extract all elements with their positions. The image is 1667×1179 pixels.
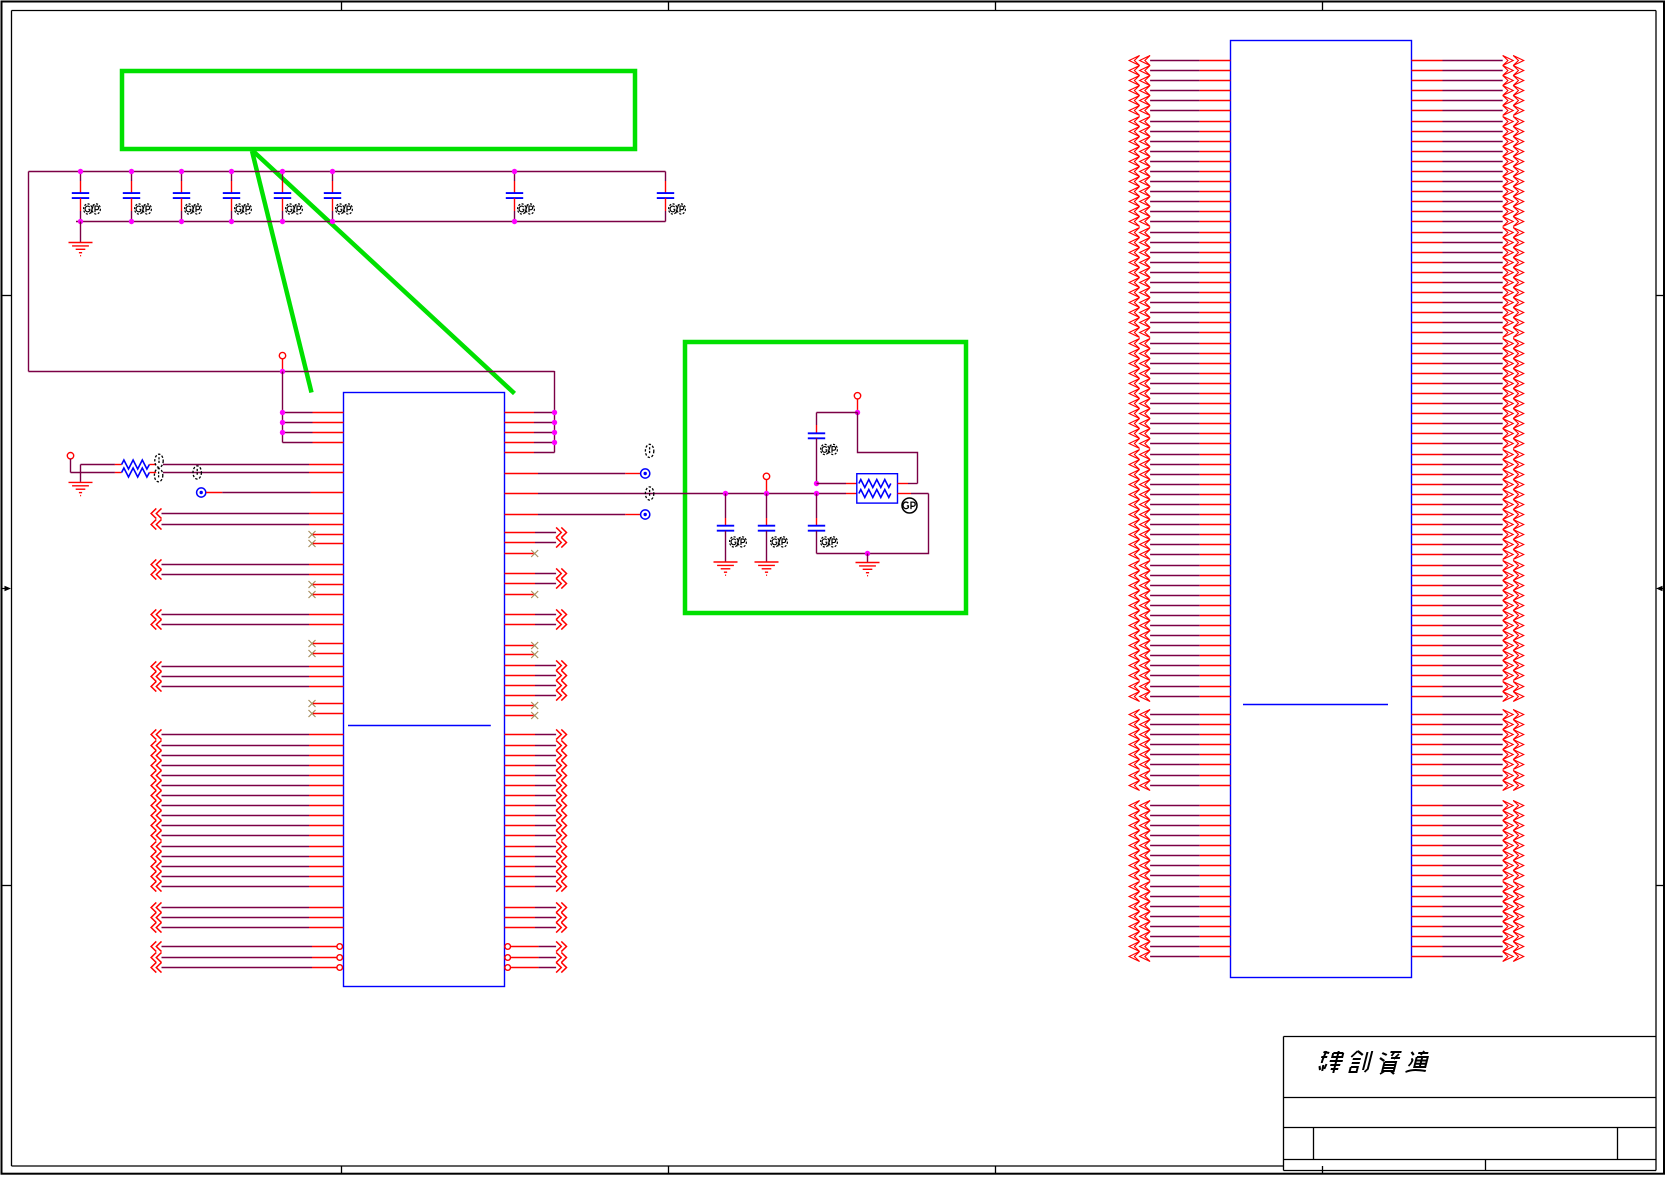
wire J1 left group 1 row 61 with off-page chevron	[1129, 660, 1230, 670]
capacitor C6 of decoupling bank	[324, 172, 353, 222]
wire J1 right group 1 row 33 with off-page chevron	[1412, 378, 1524, 388]
wire J1 left group 3 row 9 with off-page chevron	[1129, 881, 1230, 891]
wire U1 right bus group 4 row 1 with off-page chevron	[505, 660, 567, 670]
wire U1 right analog feed to RC network	[505, 493, 857, 495]
wire RP1 top-right loop to VDD	[858, 413, 918, 484]
wire J1 right group 1 row 15 with off-page chevron	[1412, 196, 1524, 206]
no-connect stub U1 right 5	[505, 702, 539, 709]
wire J1 right group 1 row 25 with off-page chevron	[1412, 297, 1524, 307]
frame zone tick bottom 1	[341, 1166, 343, 1175]
junction C3 bottom	[179, 219, 184, 224]
junction analog feed at C10 column	[814, 491, 819, 496]
wire J1 right group 1 row 44 with off-page chevron	[1412, 489, 1524, 499]
wire J1 left group 1 row 20 with off-page chevron	[1129, 247, 1230, 257]
wire J1 left group 2 row 5 with off-page chevron	[1129, 749, 1230, 759]
junction C7 top	[512, 169, 517, 174]
wire J1 right group 3 row 1 with off-page chevron	[1412, 800, 1524, 810]
no-connect stub U1 left 6	[309, 650, 344, 657]
wire J1 left group 1 row 41 with off-page chevron	[1129, 459, 1230, 469]
green annotation box 2 (middle decoupling circuit)	[685, 342, 966, 613]
wire J1 right group 1 row 50 with off-page chevron	[1412, 549, 1524, 559]
wire U1 left bus group 4 row 2 with off-page chevron	[151, 671, 343, 681]
capacitor C1 of decoupling bank	[72, 172, 101, 222]
wire J1 right group 2 row 8 with off-page chevron	[1412, 780, 1524, 790]
frame center arrow left	[2, 586, 12, 592]
wire U1 right bus group 5 row 5 with off-page chevron	[505, 770, 567, 780]
junction U1 left power pin 1	[280, 410, 285, 415]
wire J1 left group 1 row 15 with off-page chevron	[1129, 196, 1230, 206]
wire J1 left group 2 row 8 with off-page chevron	[1129, 780, 1230, 790]
wire J1 right group 1 row 26 with off-page chevron	[1412, 307, 1524, 317]
no-connect stub U1 left 8	[309, 710, 344, 717]
wire J1 left group 1 row 59 with off-page chevron	[1129, 640, 1230, 650]
net marker oval R1 row lower	[154, 469, 162, 482]
wire J1 left group 1 row 55 with off-page chevron	[1129, 600, 1230, 610]
wire J1 left group 3 row 15 with off-page chevron	[1129, 941, 1230, 951]
wire J1 left group 1 row 46 with off-page chevron	[1129, 509, 1230, 519]
wire U1 right bus group 5 row 12 with off-page chevron	[505, 841, 567, 851]
wire J1 right group 1 row 27 with off-page chevron	[1412, 317, 1524, 327]
wire J1 left group 1 row 62 with off-page chevron	[1129, 670, 1230, 680]
wire U1 right power pin 3	[505, 432, 555, 434]
wire J1 left group 2 row 4 with off-page chevron	[1129, 739, 1230, 749]
wire J1 right group 1 row 63 with off-page chevron	[1412, 681, 1524, 691]
wire J1 left group 1 row 6 with off-page chevron	[1129, 105, 1230, 115]
wire J1 left group 3 row 16 with off-page chevron	[1129, 951, 1230, 961]
net marker oval on analog feed	[645, 487, 653, 500]
wire J1 left group 1 row 29 with off-page chevron	[1129, 338, 1230, 348]
wire U1 right bus group 5 row 13 with off-page chevron	[505, 851, 567, 861]
wire J1 left group 3 row 6 with off-page chevron	[1129, 850, 1230, 860]
wire J1 right group 1 row 9 with off-page chevron	[1412, 136, 1524, 146]
wire J1 right group 1 row 19 with off-page chevron	[1412, 237, 1524, 247]
frame zone tick left 2	[2, 885, 12, 887]
green annotation callout box 1 (top-left, empty)	[122, 71, 635, 149]
junction U1 right power pin 3	[552, 430, 557, 435]
wire J1 left group 1 row 9 with off-page chevron	[1129, 136, 1230, 146]
wire U1 left bus group 5 row 7 with off-page chevron	[151, 790, 343, 800]
wire U1 left bus group 2 row 1 with off-page chevron	[151, 559, 343, 569]
wire J1 left group 1 row 60 with off-page chevron	[1129, 650, 1230, 660]
capacitor C3 of decoupling bank	[173, 172, 202, 222]
junction C4 top	[229, 169, 234, 174]
power pin circle above U1 left feed	[279, 352, 285, 371]
junction C1 bottom	[78, 219, 83, 224]
wire J1 left group 1 row 45 with off-page chevron	[1129, 499, 1230, 509]
wire U1 right bus group 3 row 1 with off-page chevron	[505, 609, 567, 619]
wire J1 left group 3 row 3 with off-page chevron	[1129, 820, 1230, 830]
wire J1 right group 1 row 40 with off-page chevron	[1412, 449, 1524, 459]
wire U1 right bus group 5 row 9 with off-page chevron	[505, 810, 567, 820]
GP flag of resistor pack	[902, 498, 917, 513]
frame zone tick right 1	[1656, 295, 1664, 297]
wire J1 right group 2 row 3 with off-page chevron	[1412, 729, 1524, 739]
frame zone tick bottom 4	[1322, 1166, 1324, 1175]
junction power feed left	[280, 369, 285, 374]
junction C3 top	[179, 169, 184, 174]
wire J1 left group 1 row 52 with off-page chevron	[1129, 570, 1230, 580]
wire J1 right group 1 row 58 with off-page chevron	[1412, 630, 1524, 640]
wire J1 right group 1 row 42 with off-page chevron	[1412, 469, 1524, 479]
wire J1 right group 1 row 46 with off-page chevron	[1412, 509, 1524, 519]
wire J1 left group 1 row 17 with off-page chevron	[1129, 216, 1230, 226]
wire J1 right group 1 row 52 with off-page chevron	[1412, 570, 1524, 580]
power pin circle VDD of RC network	[854, 393, 860, 413]
wire J1 left group 1 row 37 with off-page chevron	[1129, 418, 1230, 428]
no-connect stub U1 right 6	[505, 712, 539, 719]
wire J1 left group 1 row 42 with off-page chevron	[1129, 469, 1230, 479]
wire U1 right bus group 2 row 2 with off-page chevron	[505, 578, 567, 588]
wire U1 left bus group 5 row 14 with off-page chevron	[151, 861, 343, 871]
wire U1 left bus group 6 row 3 with off-page chevron	[151, 922, 343, 932]
wire J1 right group 3 row 12 with off-page chevron	[1412, 911, 1524, 921]
wire U1 right row to bullseye 1	[505, 469, 650, 478]
wire J1 right group 1 row 31 with off-page chevron	[1412, 358, 1524, 368]
wire J1 left group 3 row 14 with off-page chevron	[1129, 931, 1230, 941]
wire U1 right bus group 5 row 8 with off-page chevron	[505, 800, 567, 810]
wire U1 right power pin 1	[505, 412, 555, 414]
wire J1 left group 1 row 14 with off-page chevron	[1129, 186, 1230, 196]
wire U1 right bus group 5 row 16 with off-page chevron	[505, 881, 567, 891]
junction U1 right power pin 2	[552, 420, 557, 425]
wire J1 right group 1 row 7 with off-page chevron	[1412, 116, 1524, 126]
wire U1 left bus group 5 row 15 with off-page chevron	[151, 871, 343, 881]
net marker oval R1 row upper	[155, 454, 163, 467]
wire J1 right group 1 row 64 with off-page chevron	[1412, 691, 1524, 701]
wire J1 left group 1 row 50 with off-page chevron	[1129, 549, 1230, 559]
wire U1 left bus group 4 row 1 with off-page chevron	[151, 661, 343, 671]
wire J1 right group 1 row 43 with off-page chevron	[1412, 479, 1524, 489]
wire J1 left group 1 row 2 with off-page chevron	[1129, 65, 1230, 75]
junction C6 top	[330, 169, 335, 174]
wire J1 left group 3 row 1 with off-page chevron	[1129, 800, 1230, 810]
wire U1 right active-low pin 1 with bubble and chevron	[505, 941, 567, 951]
wire J1 right group 1 row 55 with off-page chevron	[1412, 600, 1524, 610]
wire J1 left group 2 row 7 with off-page chevron	[1129, 770, 1230, 780]
wire U1 right bus group 1 row 1 with off-page chevron	[505, 527, 567, 537]
wire U1 right bus group 3 row 2 with off-page chevron	[505, 619, 567, 629]
wire U1 left bus group 6 row 1 with off-page chevron	[151, 902, 343, 912]
wire J1 right group 2 row 4 with off-page chevron	[1412, 739, 1524, 749]
wire J1 right group 1 row 53 with off-page chevron	[1412, 580, 1524, 590]
junction C4 bottom	[229, 219, 234, 224]
resistor pack RP1 body	[857, 474, 898, 503]
wire J1 right group 3 row 4 with off-page chevron	[1412, 830, 1524, 840]
wire J1 left group 1 row 11 with off-page chevron	[1129, 156, 1230, 166]
wire U1 right bus group 5 row 14 with off-page chevron	[505, 861, 567, 871]
frame zone tick top 4	[1322, 2, 1324, 11]
power pin circle at resistor pair	[67, 453, 73, 473]
wire J1 right group 1 row 16 with off-page chevron	[1412, 206, 1524, 216]
wire J1 left group 1 row 33 with off-page chevron	[1129, 378, 1230, 388]
junction U1 right power pin 4	[552, 440, 557, 445]
wire J1 right group 1 row 47 with off-page chevron	[1412, 519, 1524, 529]
wire U1 left bus group 5 row 1 with off-page chevron	[151, 729, 343, 739]
wire J1 left group 1 row 19 with off-page chevron	[1129, 237, 1230, 247]
wire J1 left group 3 row 10 with off-page chevron	[1129, 891, 1230, 901]
wire J1 right group 1 row 11 with off-page chevron	[1412, 156, 1524, 166]
junction C7 bottom	[512, 219, 517, 224]
wire J1 right group 1 row 28 with off-page chevron	[1412, 327, 1524, 337]
wire J1 right group 1 row 20 with off-page chevron	[1412, 247, 1524, 257]
wire J1 right group 1 row 48 with off-page chevron	[1412, 529, 1524, 539]
wire J1 left group 3 row 4 with off-page chevron	[1129, 830, 1230, 840]
wire vertical power feed right of U1	[554, 371, 556, 453]
wire J1 right group 3 row 10 with off-page chevron	[1412, 891, 1524, 901]
floating net marker oval right of U1	[645, 444, 653, 457]
IC U1 internal section divider	[348, 725, 491, 727]
wire U1 right active-low pin 2 with bubble and chevron	[505, 952, 567, 962]
wire U1 right bus group 5 row 15 with off-page chevron	[505, 871, 567, 881]
wire RP1 bottom-right to ground rail	[817, 494, 929, 554]
test point bullseye left row	[197, 488, 344, 497]
wire U1 right bus group 5 row 10 with off-page chevron	[505, 820, 567, 830]
wire J1 right group 1 row 62 with off-page chevron	[1412, 670, 1524, 680]
no-connect stub U1 right 2	[505, 591, 539, 598]
wire J1 right group 3 row 14 with off-page chevron	[1412, 931, 1524, 941]
wire J1 left group 3 row 7 with off-page chevron	[1129, 860, 1230, 870]
junction C2 top	[129, 169, 134, 174]
wire J1 left group 2 row 3 with off-page chevron	[1129, 729, 1230, 739]
wire J1 right group 1 row 32 with off-page chevron	[1412, 368, 1524, 378]
wire U1 left bus group 5 row 11 with off-page chevron	[151, 830, 343, 840]
capacitor C8 with ground	[755, 494, 788, 576]
ground symbol of capacitor bank	[69, 222, 93, 256]
wire U1 right row to bullseye 2	[505, 510, 650, 519]
ground symbol of RC network	[856, 554, 880, 576]
wire U1 right bus group 4 row 4 with off-page chevron	[505, 690, 567, 700]
wire J1 left group 1 row 63 with off-page chevron	[1129, 681, 1230, 691]
wire J1 left group 1 row 38 with off-page chevron	[1129, 428, 1230, 438]
wire J1 right group 1 row 18 with off-page chevron	[1412, 227, 1524, 237]
frame zone tick top 1	[341, 2, 343, 11]
wire J1 right group 1 row 21 with off-page chevron	[1412, 257, 1524, 267]
wire U1 right bus group 5 row 7 with off-page chevron	[505, 790, 567, 800]
wire U1 left bus group 5 row 4 with off-page chevron	[151, 760, 343, 770]
wire J1 left group 1 row 48 with off-page chevron	[1129, 529, 1230, 539]
wire J1 left group 3 row 2 with off-page chevron	[1129, 810, 1230, 820]
capacitor C10 to ground rail	[808, 494, 838, 554]
wire vertical power feed left of U1	[282, 372, 284, 443]
wire J1 right group 1 row 36 with off-page chevron	[1412, 408, 1524, 418]
wire J1 left group 1 row 12 with off-page chevron	[1129, 166, 1230, 176]
no-connect stub U1 left 1	[309, 531, 344, 538]
wire J1 left group 1 row 24 with off-page chevron	[1129, 287, 1230, 297]
green callout leader line 2	[253, 151, 515, 394]
wire J1 right group 1 row 51 with off-page chevron	[1412, 560, 1524, 570]
junction VDD node	[855, 410, 860, 415]
wire U1 right bus group 2 row 1 with off-page chevron	[505, 568, 567, 578]
wire U1 left bus group 5 row 2 with off-page chevron	[151, 740, 343, 750]
wire J1 left group 1 row 44 with off-page chevron	[1129, 489, 1230, 499]
IC U1 body	[344, 393, 505, 987]
wire J1 right group 1 row 6 with off-page chevron	[1412, 105, 1524, 115]
wire horizontal power feed to U1	[29, 371, 555, 373]
no-connect stub U1 left 5	[309, 640, 344, 647]
wire J1 right group 1 row 24 with off-page chevron	[1412, 287, 1524, 297]
company logo text (Chinese, hand-drawn strokes)	[1317, 1051, 1431, 1074]
wire J1 right group 1 row 1 with off-page chevron	[1412, 55, 1524, 65]
wire U1 right bus group 6 row 1 with off-page chevron	[505, 902, 567, 912]
wire J1 left group 1 row 36 with off-page chevron	[1129, 408, 1230, 418]
wire J1 right group 3 row 11 with off-page chevron	[1412, 901, 1524, 911]
wire J1 left group 1 row 30 with off-page chevron	[1129, 348, 1230, 358]
wire U1 right power pin 2	[505, 422, 555, 424]
junction C5 top	[280, 169, 285, 174]
wire J1 right group 1 row 30 with off-page chevron	[1412, 348, 1524, 358]
wire J1 left group 1 row 22 with off-page chevron	[1129, 267, 1230, 277]
wire J1 left group 1 row 32 with off-page chevron	[1129, 368, 1230, 378]
wire J1 left group 1 row 1 with off-page chevron	[1129, 55, 1230, 65]
wire U1 left bus group 1 row 1 with off-page chevron	[151, 508, 343, 518]
capacitor C8 of decoupling bank	[657, 172, 686, 222]
no-connect stub U1 right 1	[505, 550, 539, 557]
wire U1 right bus group 5 row 2 with off-page chevron	[505, 740, 567, 750]
wire J1 right group 3 row 9 with off-page chevron	[1412, 881, 1524, 891]
wire J1 right group 1 row 39 with off-page chevron	[1412, 438, 1524, 448]
wire U1 right active-low pin 3 with bubble and chevron	[505, 962, 567, 972]
wire J1 left group 1 row 51 with off-page chevron	[1129, 560, 1230, 570]
wire J1 right group 3 row 8 with off-page chevron	[1412, 870, 1524, 880]
wire J1 right group 1 row 38 with off-page chevron	[1412, 428, 1524, 438]
wire U1 left bus group 4 row 3 with off-page chevron	[151, 681, 343, 691]
resistor R1	[81, 460, 344, 469]
wire U1 left bus group 3 row 2 with off-page chevron	[151, 619, 343, 629]
wire J1 right group 3 row 13 with off-page chevron	[1412, 921, 1524, 931]
capacitor C4 of decoupling bank	[223, 172, 252, 222]
wire J1 right group 1 row 59 with off-page chevron	[1412, 640, 1524, 650]
wire J1 right group 1 row 4 with off-page chevron	[1412, 85, 1524, 95]
wire J1 right group 1 row 57 with off-page chevron	[1412, 620, 1524, 630]
no-connect stub U1 left 4	[309, 591, 344, 598]
wire J1 right group 3 row 5 with off-page chevron	[1412, 840, 1524, 850]
frame zone tick top 3	[995, 2, 997, 11]
wire J1 left group 1 row 43 with off-page chevron	[1129, 479, 1230, 489]
wire J1 right group 1 row 3 with off-page chevron	[1412, 75, 1524, 85]
junction C6 bottom	[330, 219, 335, 224]
wire U1 left power pin 3	[283, 432, 344, 434]
wire J1 left group 1 row 49 with off-page chevron	[1129, 539, 1230, 549]
wire U1 right bus group 5 row 6 with off-page chevron	[505, 780, 567, 790]
wire U1 left bus group 5 row 5 with off-page chevron	[151, 770, 343, 780]
wire J1 right group 1 row 14 with off-page chevron	[1412, 186, 1524, 196]
wire ground bus bottom rail	[76, 221, 666, 223]
wire J1 left group 2 row 2 with off-page chevron	[1129, 719, 1230, 729]
wire U1 left bus group 1 row 2 with off-page chevron	[151, 519, 343, 529]
wire VDD node horizontal	[817, 412, 858, 414]
junction U1 left power pin 2	[280, 420, 285, 425]
wire J1 left group 2 row 1 with off-page chevron	[1129, 709, 1230, 719]
wire J1 right group 1 row 60 with off-page chevron	[1412, 650, 1524, 660]
wire J1 right group 3 row 15 with off-page chevron	[1412, 941, 1524, 951]
junction ground rail	[865, 551, 870, 556]
wire J1 left group 1 row 7 with off-page chevron	[1129, 116, 1230, 126]
title block outline	[1284, 1037, 1657, 1171]
wire J1 left group 1 row 13 with off-page chevron	[1129, 176, 1230, 186]
capacitor C5 of decoupling bank	[274, 172, 303, 222]
wire U1 left bus group 6 row 2 with off-page chevron	[151, 912, 343, 922]
wire J1 left group 3 row 13 with off-page chevron	[1129, 921, 1230, 931]
no-connect stub U1 left 7	[309, 700, 344, 707]
wire J1 right group 1 row 17 with off-page chevron	[1412, 216, 1524, 226]
wire J1 left group 3 row 5 with off-page chevron	[1129, 840, 1230, 850]
junction U1 left power pin 3	[280, 430, 285, 435]
wire J1 right group 1 row 49 with off-page chevron	[1412, 539, 1524, 549]
capacitor C2 of decoupling bank	[123, 172, 152, 222]
wire J1 left group 1 row 16 with off-page chevron	[1129, 206, 1230, 216]
wire J1 left group 1 row 4 with off-page chevron	[1129, 85, 1230, 95]
wire J1 right group 1 row 13 with off-page chevron	[1412, 176, 1524, 186]
wire U1 right bus group 5 row 1 with off-page chevron	[505, 729, 567, 739]
wire J1 right group 2 row 6 with off-page chevron	[1412, 759, 1524, 769]
wire U1 left bus group 5 row 9 with off-page chevron	[151, 810, 343, 820]
wire U1 left bus group 5 row 12 with off-page chevron	[151, 841, 343, 851]
capacitor C9 (top, VDD filter)	[808, 413, 838, 484]
wire J1 left group 1 row 58 with off-page chevron	[1129, 630, 1230, 640]
wire J1 left group 1 row 34 with off-page chevron	[1129, 388, 1230, 398]
wire J1 right group 1 row 23 with off-page chevron	[1412, 277, 1524, 287]
wire J1 left group 1 row 27 with off-page chevron	[1129, 317, 1230, 327]
wire J1 left group 1 row 31 with off-page chevron	[1129, 358, 1230, 368]
wire power bus top rail	[29, 171, 666, 173]
wire J1 right group 1 row 5 with off-page chevron	[1412, 95, 1524, 105]
wire J1 left group 1 row 39 with off-page chevron	[1129, 438, 1230, 448]
wire U1 right power pin 4	[505, 442, 555, 444]
wire J1 right group 1 row 12 with off-page chevron	[1412, 166, 1524, 176]
wire U1 right bus group 6 row 2 with off-page chevron	[505, 912, 567, 922]
wire J1 right group 3 row 2 with off-page chevron	[1412, 810, 1524, 820]
wire U1 right bus group 6 row 3 with off-page chevron	[505, 922, 567, 932]
wire top resistor row left	[817, 483, 857, 485]
capacitor C7 with ground	[714, 494, 747, 576]
wire U1 left bus group 5 row 13 with off-page chevron	[151, 851, 343, 861]
wire U1 right bus group 4 row 2 with off-page chevron	[505, 670, 567, 680]
junction U1 right power pin 1	[552, 410, 557, 415]
wire J1 left group 3 row 8 with off-page chevron	[1129, 870, 1230, 880]
junction C2 bottom	[129, 219, 134, 224]
wire J1 right group 3 row 3 with off-page chevron	[1412, 820, 1524, 830]
power pin circle 2 on analog feed	[763, 473, 769, 493]
wire J1 left group 1 row 47 with off-page chevron	[1129, 519, 1230, 529]
wire J1 right group 1 row 35 with off-page chevron	[1412, 398, 1524, 408]
wire J1 left group 1 row 40 with off-page chevron	[1129, 449, 1230, 459]
no-connect stub U1 left 2	[309, 540, 344, 547]
wire U1 left power pin 4	[283, 442, 344, 444]
wire J1 right group 1 row 54 with off-page chevron	[1412, 590, 1524, 600]
junction analog feed at C7 column	[723, 491, 728, 496]
no-connect stub U1 right 4	[505, 651, 539, 658]
wire U1 left active-low pin 1 with chevron and bubble	[151, 941, 342, 951]
wire J1 left group 1 row 53 with off-page chevron	[1129, 580, 1230, 590]
wire left rail from top bus down	[28, 172, 30, 372]
wire J1 left group 3 row 11 with off-page chevron	[1129, 901, 1230, 911]
connector J1 internal divider	[1243, 704, 1388, 706]
frame zone tick top 2	[668, 2, 670, 11]
green callout leader line 1	[252, 151, 312, 393]
wire J1 right group 1 row 56 with off-page chevron	[1412, 610, 1524, 620]
junction C9 bottom / RP1 top row	[814, 481, 819, 486]
wire J1 right group 1 row 41 with off-page chevron	[1412, 459, 1524, 469]
wire U1 right bus group 5 row 4 with off-page chevron	[505, 760, 567, 770]
wire J1 right group 1 row 2 with off-page chevron	[1412, 65, 1524, 75]
wire U1 left power pin 2	[283, 422, 344, 424]
wire J1 left group 1 row 10 with off-page chevron	[1129, 146, 1230, 156]
wire U1 right power pin 5	[505, 452, 555, 454]
wire J1 left group 3 row 12 with off-page chevron	[1129, 911, 1230, 921]
wire J1 left group 1 row 56 with off-page chevron	[1129, 610, 1230, 620]
junction C1 top	[78, 169, 83, 174]
wire U1 left bus group 5 row 8 with off-page chevron	[151, 800, 343, 810]
